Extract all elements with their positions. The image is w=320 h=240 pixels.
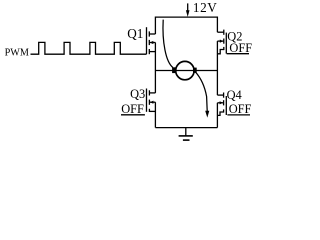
wire mid rail <box>155 70 217 72</box>
wire left branch Q3 source to bottom rail <box>154 102 156 127</box>
motor M (circle) <box>176 61 194 79</box>
svg-text:Q4: Q4 <box>227 88 242 102</box>
svg-text:PWM: PWM <box>5 48 29 59</box>
wire bottom rail <box>155 127 217 129</box>
wire right branch Q4 source to bottom rail <box>216 103 218 128</box>
node 12V supply arrow <box>186 3 190 17</box>
svg-text:OFF: OFF <box>229 41 252 55</box>
transistor Q1 <box>147 27 156 54</box>
wire right branch rail to Q2 drain <box>216 17 218 33</box>
svg-text:OFF: OFF <box>229 102 252 116</box>
wire PWM square waveform <box>31 42 147 54</box>
svg-text:12V: 12V <box>193 0 218 15</box>
transistor Q4 <box>217 93 226 116</box>
svg-text:Q1: Q1 <box>127 26 143 41</box>
wire current flow arc from motor through Q4, with arrowhead <box>195 72 209 118</box>
junction right motor terminal <box>193 68 197 73</box>
wire Q1 drain vertical <box>154 17 156 35</box>
wire right branch Q2 source to Q4 drain (through mid rail) <box>216 41 218 95</box>
transistor Q2 <box>217 30 226 54</box>
transistor Q3 <box>147 89 156 113</box>
wire top 12V rail <box>155 16 217 18</box>
svg-text:OFF: OFF <box>121 102 144 116</box>
ground <box>179 128 193 141</box>
wire current flow arc from Q1 to motor <box>163 20 173 68</box>
junction left motor terminal <box>172 67 176 73</box>
svg-text:Q3: Q3 <box>130 87 145 101</box>
wire left branch Q1 source to Q3 drain (through mid rail) <box>154 43 156 93</box>
